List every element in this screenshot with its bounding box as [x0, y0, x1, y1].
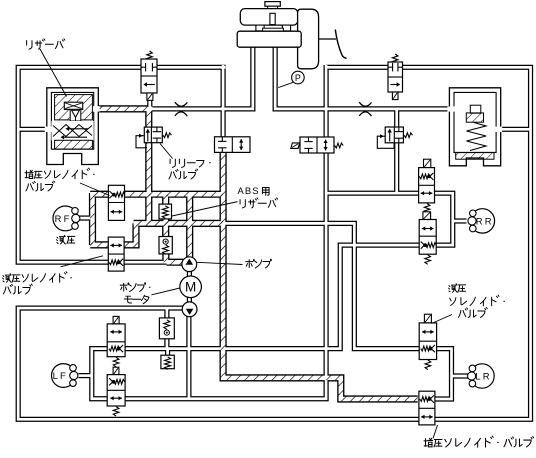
hatched pipe core: RF hatched channel — [90, 193, 95, 245]
wire core: spring box stub — [166, 350, 169, 356]
hatched pipe: pump suction hatched (black edge) — [167, 259, 184, 266]
hatched pipe core: long hatched pipe — [134, 221, 224, 226]
LF increase valve — [107, 324, 125, 357]
reservoir label leader — [40, 49, 67, 97]
LR increase valve — [419, 391, 435, 425]
hatched pipe: check valve drain stub (black edge) — [162, 254, 169, 263]
wire core: valve C stub pipe — [148, 100, 151, 108]
svg-text:M: M — [185, 280, 196, 295]
hatch marks: ABS reservoir feed — [163, 194, 168, 205]
hatched pipe core: check valve drain stub — [164, 254, 169, 263]
relief valve label leader — [160, 144, 173, 159]
label: バルブ line2 (reduce left) — [3, 284, 12, 293]
RR reduce valve stub — [424, 159, 431, 167]
solenoid valve C spring — [147, 51, 153, 61]
wire core: RR reduce valve pipe — [326, 192, 419, 195]
orifice left — [175, 102, 187, 106]
hatch marks: hatched pump gallery — [90, 192, 223, 197]
wire core: right accumulator port pipe — [497, 128, 531, 131]
wire: master cylinder left pipe — [95, 47, 253, 109]
hatched pipe core: hatched relief riser — [147, 108, 152, 223]
hatch marks: pump feed riser — [187, 194, 192, 258]
RR increase valve stub — [423, 212, 431, 220]
hatch marks: check valve drain stub — [164, 254, 169, 263]
wire: RR supply branch — [328, 245, 420, 348]
hatch marks: hatched relief riser — [146, 109, 151, 224]
LF wheel cylinder — [52, 364, 76, 388]
wire core: right relief riser lower — [395, 143, 398, 194]
wire core: LF wheel channel — [92, 349, 108, 399]
RF wheel cylinder — [53, 206, 78, 231]
hatched pipe core: main hatched column — [223, 152, 418, 399]
label: バルブ line2 (left top) — [26, 181, 35, 190]
wire: spring box stub — [165, 350, 170, 356]
wire: check valve stub upper — [164, 309, 169, 319]
wire core: master cylinder left pipe — [95, 47, 253, 109]
label: バルブ (right) — [458, 308, 467, 317]
RR increase valve — [419, 220, 436, 255]
wire: LF wheel channel — [92, 349, 108, 399]
wire: RR wheel port pipe — [453, 218, 467, 223]
pump outlet circle — [182, 257, 197, 272]
RR wheel cylinder — [470, 209, 494, 233]
svg-text:RR: RR — [476, 215, 494, 226]
LF reduce valve spring — [113, 407, 119, 417]
master cylinder reservoir — [265, 2, 280, 7]
relief valve R pilot line — [377, 136, 394, 148]
check valve (bottom-left circuit) — [159, 318, 174, 339]
relief valve L — [144, 127, 162, 143]
label: バルブ (relief) — [169, 169, 178, 178]
hatch marks: RF hatched channel — [90, 193, 95, 245]
solenoid valve C stub — [147, 93, 153, 100]
orifice right — [359, 102, 371, 106]
wire core: check valve stub upper — [166, 309, 169, 319]
solenoid valve F — [388, 62, 403, 92]
wire core: valve D riser — [222, 65, 225, 138]
label: ソレノイド・ (right) — [450, 298, 456, 306]
hatched pipe core: pump suction hatched — [167, 260, 184, 265]
LR wheel cylinder — [470, 364, 494, 388]
increase solenoid valve label leader (bottom) — [433, 425, 438, 439]
RF reduce valve — [108, 237, 124, 271]
wire core: check valve stub lower — [166, 338, 169, 347]
hatched pipe: hatched pump gallery (black edge) — [90, 191, 223, 198]
wire: LF supply pipe — [125, 346, 326, 351]
wire: LR wheel channel — [435, 349, 451, 399]
wire core: valve G supply line — [125, 65, 326, 399]
solenoid valve F stub — [392, 92, 398, 100]
label: モータ label — [124, 296, 132, 303]
hatched pipe: ABS reservoir feed (black edge) — [162, 194, 169, 205]
pump label leader — [197, 262, 243, 264]
label: 増圧ソレノイド・ line1 — [25, 170, 33, 178]
wire: RF wheel pipe — [80, 215, 94, 220]
wire core: outer frame pipe — [18, 67, 530, 419]
valve D — [215, 137, 251, 153]
spring box (bottom-left circuit) — [161, 355, 174, 369]
wire core: RR wheel channel — [434, 193, 453, 245]
relief valve R — [385, 127, 403, 143]
wire: valve G supply line — [125, 65, 326, 399]
hatched pipe core: hatched pump gallery — [90, 192, 223, 197]
hatched pipe: RF hatched channel (black edge) — [89, 193, 96, 245]
relief valve R spring — [404, 133, 413, 138]
svg-text:LF: LF — [53, 370, 68, 381]
solenoid valve C — [141, 59, 157, 93]
ABS reservoir — [159, 204, 172, 219]
increase solenoid valve label leader (left) — [80, 183, 110, 196]
hatched pipe core: ABS reservoir feed — [163, 194, 168, 205]
wire: RF-LR cross pipe — [222, 223, 420, 348]
label: 減圧ソレノイド・ line1 — [3, 274, 12, 282]
brake booster — [298, 9, 319, 69]
svg-text:ABS: ABS — [238, 185, 260, 196]
wire: pump suction drop — [186, 316, 191, 399]
wire: valve D riser — [221, 65, 226, 138]
relief valve L spring — [163, 133, 172, 138]
svg-text:P: P — [295, 73, 301, 83]
wire core: left frame pipe — [18, 67, 225, 262]
pressure sensor leader — [278, 82, 293, 87]
hatched pipe core: hatched main pipe — [94, 107, 153, 112]
LR reduce valve stub — [424, 314, 431, 323]
pump motor M — [180, 276, 202, 298]
RR reduce valve spring — [424, 204, 430, 214]
check valve (left circuit) — [159, 237, 172, 254]
wire core: RF wheel pipe — [80, 217, 94, 220]
wire: right relief riser upper — [394, 109, 399, 128]
hatched pipe core: RF reduce feed — [90, 243, 108, 248]
wire core: master cylinder right pipe — [275, 47, 450, 109]
brake pedal — [319, 38, 336, 40]
wire: pump connector upper — [187, 271, 192, 278]
wire: RR wheel channel — [434, 193, 453, 245]
left reservoir assembly — [47, 88, 99, 165]
hatch marks: ABS reservoir drain — [163, 219, 168, 238]
pressure sensor P — [292, 71, 305, 84]
wire core: LR wheel port pipe — [452, 375, 469, 378]
wire core: left accumulator port pipe — [18, 128, 50, 131]
reduce solenoid valve label leader (right) — [432, 315, 453, 324]
wire core: pump connector lower — [188, 297, 191, 304]
hatched pipe core: ABS reservoir drain — [163, 219, 168, 238]
LF increase valve stub — [113, 316, 119, 324]
hatched pipe core: RF reduce outlet jog — [124, 223, 136, 245]
wire: pump connector lower — [187, 297, 192, 304]
wire: LR wheel port pipe — [452, 373, 469, 378]
label: リザーバ (reservoir) — [27, 41, 32, 49]
hatch marks: main hatched column — [221, 152, 226, 378]
svg-text:LR: LR — [475, 370, 491, 381]
hatched pipe: hatched relief riser (black edge) — [145, 108, 152, 223]
wire core: pump connector upper — [188, 271, 191, 278]
label: 減圧 (right) — [449, 284, 458, 292]
LR reduce valve — [419, 323, 436, 360]
wire core: LR wheel channel — [435, 349, 451, 399]
hatch marks: pump suction hatched — [167, 260, 184, 265]
valve G — [300, 137, 334, 153]
wire: check valve stub lower — [164, 338, 169, 347]
wire core: LF wheel port pipe — [79, 374, 92, 377]
label: 減圧 under RF — [57, 235, 66, 244]
relief valve L pilot line — [136, 136, 147, 148]
wire: left accumulator port pipe — [18, 127, 50, 132]
label: ポンプ label — [246, 259, 255, 267]
RF increase valve — [108, 185, 124, 220]
hatched pipe: main hatched column (black edge) — [223, 152, 418, 399]
wire: RR reduce valve pipe — [326, 191, 419, 196]
reduce solenoid valve label leader (left) — [61, 256, 104, 267]
RR reduce valve — [419, 168, 435, 203]
hatch marks: RF reduce feed — [90, 243, 108, 248]
wire core: LF supply pipe — [125, 347, 326, 350]
label: 増圧ソレノイド・バルブ bottom — [424, 438, 433, 447]
ABS reservoir label leader — [172, 202, 238, 216]
LF reduce valve — [107, 375, 125, 406]
RR increase valve spring — [425, 255, 431, 264]
hatched pipe: pump feed riser (black edge) — [186, 194, 193, 258]
hatched pipe: long hatched pipe (black edge) — [134, 220, 224, 227]
wire core: RF-LR cross pipe — [222, 223, 420, 348]
valve G solenoid — [291, 143, 300, 149]
wire: right relief riser lower — [394, 143, 399, 194]
hatched pipe core: pump feed riser — [187, 194, 192, 258]
valve G spring — [335, 143, 344, 148]
label: リリーフ・ label — [170, 159, 175, 167]
wire: outer frame pipe — [18, 67, 530, 419]
right reservoir assembly — [449, 88, 500, 166]
wire: valve C stub pipe — [147, 100, 152, 108]
wire core: right relief riser upper — [395, 109, 398, 128]
label: ポンプ・ label — [120, 283, 129, 291]
hatched pipe: RF reduce feed (black edge) — [90, 241, 108, 248]
wire core: RR wheel port pipe — [453, 220, 467, 223]
label: 用 kanji — [263, 188, 270, 196]
wire core: pump suction drop — [188, 316, 191, 399]
solenoid valve F spring — [392, 54, 398, 64]
svg-text:RF: RF — [55, 213, 72, 224]
hatched pipe: ABS reservoir drain (black edge) — [162, 219, 169, 238]
wire: LF wheel port pipe — [79, 373, 92, 378]
pump inlet circle — [182, 302, 197, 317]
wire: left frame pipe — [18, 67, 225, 262]
wire: right accumulator port pipe — [497, 127, 531, 132]
hatch marks: long hatched pipe — [134, 221, 224, 226]
LF reduce valve stub — [113, 367, 119, 374]
hatched pipe: hatched main pipe (black edge) — [94, 105, 153, 112]
hatched pipe: RF reduce outlet jog (black edge) — [124, 223, 136, 245]
wire core: RR supply branch — [328, 245, 420, 348]
wire: master cylinder right pipe — [275, 47, 450, 109]
master cylinder body — [256, 25, 264, 31]
LR reduce valve spring — [425, 360, 431, 370]
hatch marks: hatched main pipe — [94, 106, 153, 111]
hatch marks: RF reduce outlet jog — [124, 243, 136, 248]
label: リザーバ line2 (ABS) — [240, 200, 245, 208]
LF increase valve spring — [113, 357, 119, 367]
pump motor label leader — [152, 288, 180, 295]
